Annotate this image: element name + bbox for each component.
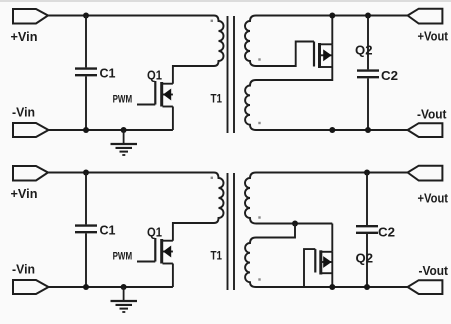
svg-text:C2: C2: [381, 69, 398, 83]
transistor Q1 (top circuit): [155, 81, 173, 107]
node C2 bottom junction: [365, 127, 371, 133]
wire bottom rail -Vin to Q1 source: [49, 129, 173, 131]
wire Q2 drain to winding junction (bottom circuit): [331, 224, 333, 252]
terminal -Vout (top circuit): [408, 123, 443, 137]
wire PWM to Q1 gate (bottom circuit): [137, 261, 155, 263]
svg-text:C1: C1: [100, 224, 116, 238]
svg-text:T1: T1: [211, 92, 223, 106]
polarity mark T1 secondary 2 (top circuit): [258, 122, 260, 124]
capacitor C2 (bottom circuit): [356, 173, 378, 288]
wire bottom rail secondary to -Vout (bottom circuit): [256, 286, 408, 288]
polarity mark T1 secondary 1 (top circuit): [258, 58, 260, 60]
wire bottom rail -Vin to Q1 source (bottom circuit): [49, 286, 173, 288]
terminal -Vin (top circuit): [13, 123, 49, 137]
capacitor C1 (top circuit): [75, 16, 97, 131]
transformer T1 secondary winding 1 (top circuit): [245, 16, 256, 67]
node C2 top junction (bottom circuit): [364, 170, 370, 176]
node C2 bottom junction (bottom circuit): [364, 284, 370, 290]
terminal +Vout (bottom circuit): [408, 166, 443, 181]
svg-text:Q2: Q2: [355, 44, 373, 58]
wire junction to secondary winding 2 (bottom circuit): [256, 224, 295, 238]
transistor Q2 (bottom circuit): [315, 249, 332, 274]
transformer T1 secondary winding 2 (bottom circuit): [245, 238, 256, 288]
wire PWM to Q1 gate: [137, 104, 155, 106]
wire Q1 source to bottom rail: [172, 107, 174, 131]
node Q2 drain junction top rail: [329, 13, 335, 19]
svg-text:-Vin: -Vin: [12, 106, 35, 120]
transformer T1 secondary winding 1 (bottom circuit): [245, 173, 256, 224]
svg-text:C2: C2: [378, 225, 395, 239]
wire top rail +Vin to T1 primary: [48, 15, 214, 17]
wire secondary1 to Q2 gate: [256, 42, 314, 67]
polarity mark T1 primary (top circuit): [211, 20, 213, 22]
capacitor C1 (bottom circuit): [75, 173, 97, 288]
svg-text:+Vout: +Vout: [418, 192, 449, 206]
svg-text:PWM: PWM: [113, 94, 133, 106]
svg-text:-Vout: -Vout: [417, 108, 447, 122]
node C1 bottom junction: [83, 127, 89, 133]
transformer T1 secondary winding 2 (top circuit): [245, 80, 256, 130]
terminal -Vin (bottom circuit): [13, 280, 49, 294]
svg-text:+Vin: +Vin: [11, 30, 38, 44]
ground (top circuit): [111, 127, 138, 155]
transformer T1 core (bottom circuit): [228, 173, 235, 290]
svg-text:-Vin: -Vin: [12, 263, 35, 277]
node C2 top junction: [365, 13, 371, 19]
node C1 top junction: [83, 13, 89, 19]
node C1 top junction (bottom circuit): [83, 170, 89, 176]
wire bottom rail secondary to -Vout: [256, 129, 408, 131]
wire top rail secondary to +Vout: [256, 15, 408, 17]
ground (bottom circuit): [111, 284, 138, 312]
polarity mark T1 primary (bottom circuit): [211, 177, 213, 179]
svg-text:+Vin: +Vin: [11, 187, 38, 201]
transistor Q2 (top circuit): [314, 42, 332, 69]
wire Q1 source to bottom rail (bottom circuit): [172, 264, 174, 288]
wire Q2 source to winding junction: [256, 44, 332, 80]
wire Q1 drain to T1 primary (bottom circuit): [173, 223, 214, 241]
svg-text:+Vout: +Vout: [418, 29, 449, 43]
svg-text:T1: T1: [211, 249, 223, 263]
polarity mark T1 secondary 1 (bottom circuit): [258, 216, 260, 218]
wire Q2 gate to bottom rail (bottom circuit): [304, 249, 315, 287]
node winding junction (bottom circuit): [292, 221, 298, 227]
node unused junction bottom rail (top circuit): [329, 127, 335, 133]
transformer T1 primary winding (bottom circuit): [214, 173, 224, 224]
wire top rail secondary to +Vout (bottom circuit): [256, 172, 408, 174]
svg-text:Q1: Q1: [147, 226, 162, 240]
svg-text:C1: C1: [100, 67, 116, 81]
svg-text:-Vout: -Vout: [419, 264, 449, 278]
wire Q1 drain to T1 primary: [173, 66, 214, 84]
transformer T1 core (top circuit): [228, 16, 235, 133]
capacitor C2 (top circuit): [357, 16, 379, 131]
transformer T1 primary winding (top circuit): [214, 16, 224, 67]
svg-text:Q2: Q2: [356, 252, 374, 266]
polarity mark T1 secondary 2 (bottom circuit): [258, 278, 260, 280]
terminal +Vout (top circuit): [408, 9, 443, 24]
wire top rail +Vin to T1 primary (bottom circuit): [48, 172, 214, 174]
wire Q2 source to bottom rail (bottom circuit): [331, 252, 333, 287]
transistor Q1 (bottom circuit): [155, 238, 173, 264]
node Q2 source junction (bottom circuit): [329, 284, 335, 290]
node C1 bottom junction (bottom circuit): [83, 284, 89, 290]
svg-text:Q1: Q1: [147, 69, 162, 83]
terminal +Vin (bottom circuit): [13, 166, 48, 181]
wire secondary1 to Q2 drain (bottom circuit): [256, 223, 332, 225]
terminal +Vin (top circuit): [13, 9, 48, 24]
wire Q2 drain to top rail: [331, 16, 333, 45]
svg-text:PWM: PWM: [113, 251, 133, 263]
terminal -Vout (bottom circuit): [408, 280, 443, 294]
